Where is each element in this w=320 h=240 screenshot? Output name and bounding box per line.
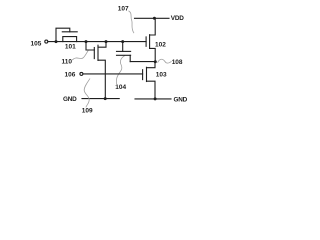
transistor 103 gate bar — [142, 70, 144, 80]
terminal 106 open circle — [80, 72, 83, 75]
node junction dot A4 (capacitor top lead) — [121, 40, 124, 43]
node left GND junction dot — [104, 97, 107, 100]
transistor 104 gate lead wire — [86, 42, 94, 50]
transistor 103 channel bar — [146, 67, 148, 81]
transistor 103 source lead wire to right GND — [147, 81, 156, 99]
transistor 101 gate lead wire — [56, 28, 70, 41]
node junction dot A2 (gate lead of 104) — [85, 40, 88, 43]
svg-text:GND: GND — [63, 96, 77, 103]
leader line for 104 — [116, 56, 124, 85]
svg-text:103: 103 — [156, 72, 167, 79]
svg-text:109: 109 — [82, 108, 93, 115]
node junction dot A1 (gate of 101) — [55, 40, 58, 43]
node junction dot A3 (drain lead of 104) — [105, 40, 108, 43]
transistor 104 gate bar — [93, 48, 95, 59]
leader line for 109 — [84, 79, 90, 107]
terminal 105 open circle — [45, 40, 48, 43]
wire left GND — [82, 98, 119, 100]
transistor 104 channel bar — [97, 45, 99, 60]
wire node B from capacitor to junction — [130, 61, 155, 63]
leader line for 107 — [129, 11, 134, 33]
transistor 104 drain lead wire — [98, 42, 106, 48]
transistor 103 drain lead wire from node B — [147, 62, 156, 68]
svg-text:105: 105 — [31, 40, 42, 47]
wire node A rail from terminal 105 to gate of 102 — [48, 41, 146, 43]
leader line for 108 — [158, 59, 171, 63]
leader line for 110 — [73, 51, 89, 60]
svg-text:110: 110 — [62, 58, 73, 65]
svg-text:GND: GND — [174, 96, 188, 103]
transistor 102 source lead wire to node B — [150, 48, 156, 61]
svg-text:106: 106 — [65, 71, 76, 78]
svg-text:VDD: VDD — [171, 15, 184, 22]
node B junction dot 108 — [154, 60, 157, 63]
svg-text:102: 102 — [155, 42, 166, 49]
svg-text:101: 101 — [65, 44, 76, 51]
wire VDD rail 107 — [135, 17, 170, 19]
node right GND junction dot — [154, 97, 157, 100]
transistor 101 channel with source/drain legs — [63, 37, 77, 42]
capacitor top lead wire — [122, 42, 124, 52]
node VDD junction dot — [153, 17, 156, 20]
transistor 102 channel bar — [149, 35, 151, 49]
transistor 104 source lead wire to left GND — [98, 60, 105, 98]
wire right GND — [135, 98, 171, 100]
svg-text:108: 108 — [172, 59, 183, 66]
capacitor top plate — [117, 50, 131, 52]
svg-text:107: 107 — [118, 6, 129, 13]
transistor 101 gate bar — [62, 31, 77, 33]
wire from terminal 106 to gate of 103 — [83, 73, 143, 75]
capacitor bottom plate — [117, 54, 131, 56]
capacitor bottom lead wire — [129, 55, 131, 61]
transistor 102 drain lead wire from VDD — [150, 18, 156, 35]
transistor 102 gate bar — [145, 37, 147, 46]
